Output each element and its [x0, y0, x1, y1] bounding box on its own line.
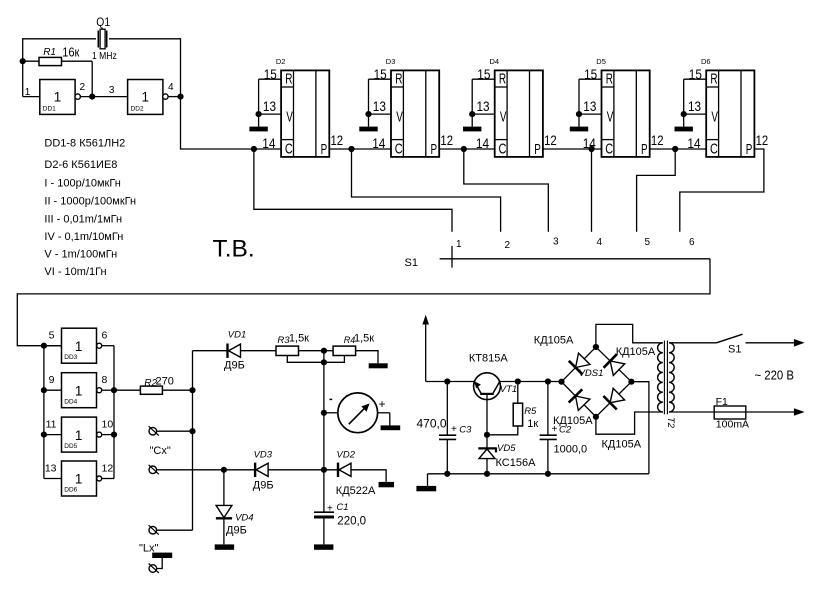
svg-text:8: 8: [102, 374, 108, 386]
node V (VT1 base / VD5): [484, 432, 490, 438]
ground (VD2): [379, 482, 395, 487]
wire +U rail (left): [426, 381, 474, 383]
label T2: [665, 417, 676, 429]
transistor VT1: [469, 353, 517, 435]
diode VD2: [336, 450, 376, 498]
node DC+ (bridge left): [558, 379, 564, 385]
svg-text:13: 13: [263, 98, 276, 114]
ground (D6 pins 15,13): [675, 127, 693, 132]
counter D4: [469, 57, 557, 158]
svg-text:VI - 10m/1Гн: VI - 10m/1Гн: [44, 266, 106, 278]
node Y (VD5 bottom): [484, 471, 490, 477]
node D (clock tap 1): [251, 146, 257, 152]
svg-text:12: 12: [102, 463, 114, 475]
svg-text:DD4: DD4: [64, 398, 77, 405]
svg-text:V: V: [711, 109, 718, 126]
wire primary bottom to fuse: [669, 411, 714, 413]
node A (R1 tap on DD1 input): [20, 58, 26, 64]
inverter DD2: [109, 80, 174, 115]
node X (C3 bottom): [444, 471, 450, 477]
resistor R3 (trimmer-connected): [276, 332, 324, 362]
svg-text:13: 13: [477, 98, 490, 114]
wire wiper to inverter bank: [17, 259, 710, 346]
terminal XS1 Cx: [149, 426, 193, 435]
wire bridge minus to 0V rail: [631, 382, 649, 474]
node L (DD4 out): [111, 387, 117, 393]
svg-text:Д9Б: Д9Б: [253, 480, 274, 492]
svg-text:14: 14: [687, 135, 700, 151]
svg-text:DD1-8 К561ЛН2: DD1-8 К561ЛН2: [44, 138, 125, 150]
crystal Q1: [92, 15, 117, 62]
ground (C1): [314, 544, 333, 549]
wire DD1 out to DD2 in: [80, 96, 127, 98]
svg-text:11: 11: [46, 419, 57, 431]
svg-text:R: R: [606, 71, 613, 88]
label KD105A top-right: [616, 346, 656, 358]
wire switch to mains line: [746, 339, 805, 347]
svg-text:R5: R5: [524, 406, 537, 417]
svg-text:Д9Б: Д9Б: [224, 359, 245, 371]
svg-text:P: P: [746, 141, 753, 158]
svg-text:4: 4: [168, 82, 174, 93]
switch S1 wiper: [405, 246, 711, 269]
node I (DD3 in): [41, 343, 47, 349]
bridge diode VDS1.3 (top-right): [604, 354, 625, 375]
bridge diode VDS1.1 (top-left): [569, 353, 590, 374]
meter PA1: [324, 393, 390, 433]
svg-text:1,5к: 1,5к: [354, 332, 374, 344]
wire VD1 to R3: [241, 350, 277, 352]
svg-text:3: 3: [109, 85, 115, 96]
switch S1 (range selector) contact labels: [456, 237, 695, 252]
node Z (C2 bottom): [545, 471, 551, 477]
svg-text:P: P: [321, 141, 328, 158]
svg-text:12: 12: [651, 132, 664, 148]
node Q (meter minus): [321, 410, 327, 416]
svg-text:DD2: DD2: [131, 105, 144, 112]
svg-text:Т.В.: Т.В.: [213, 236, 255, 263]
svg-text:1: 1: [54, 90, 62, 105]
wire bus to VD1: [193, 350, 228, 352]
svg-text:C: C: [285, 140, 293, 157]
label KD105A top-left: [534, 334, 574, 346]
svg-text:V: V: [500, 109, 507, 126]
svg-text:DD3: DD3: [64, 354, 77, 361]
svg-text:D2-6 К561ИЕ8: D2-6 К561ИЕ8: [44, 159, 117, 171]
ground (R4): [369, 363, 388, 368]
wire output bus (DD3-DD6): [113, 346, 115, 479]
resistor R5: [487, 382, 538, 435]
counter D2: [256, 57, 344, 158]
svg-text:6: 6: [102, 330, 108, 342]
svg-text:VT1: VT1: [500, 384, 517, 395]
svg-text:C: C: [499, 140, 507, 157]
node H (clock tap 5): [672, 146, 678, 152]
svg-text:14: 14: [372, 135, 385, 151]
svg-text:+: +: [327, 503, 333, 514]
svg-text:DD6: DD6: [64, 487, 77, 494]
counter D3: [365, 57, 453, 158]
node K (DD5 in): [41, 432, 47, 438]
label VDS1: [579, 368, 604, 379]
svg-text:1: 1: [456, 239, 462, 250]
svg-text:13: 13: [583, 98, 596, 114]
node S (detector junction): [321, 467, 327, 473]
svg-text:VD3: VD3: [254, 450, 273, 461]
resistor R2: [114, 375, 193, 394]
wire R1 to node B: [91, 61, 93, 96]
svg-text:T2: T2: [665, 417, 676, 429]
node E (clock tap 2): [348, 146, 354, 152]
svg-text:C1: C1: [336, 502, 348, 513]
svg-text:Д9Б: Д9Б: [226, 525, 247, 537]
svg-text:F1: F1: [716, 396, 728, 408]
svg-text:КД105А: КД105А: [553, 415, 593, 427]
svg-text:5: 5: [645, 237, 651, 248]
node R (VD4 branch): [221, 467, 227, 473]
capacitor C3: [417, 382, 473, 474]
svg-text:P: P: [641, 141, 648, 158]
node P1 (R3/R4 junction): [321, 348, 327, 354]
bridge diode VDS1.4 (bottom-right): [603, 388, 624, 409]
node DC- (bridge right): [628, 379, 634, 385]
node J (DD4 in): [41, 387, 47, 393]
wire tap to contact 3: [464, 149, 549, 232]
svg-text:КТ815А: КТ815А: [469, 353, 508, 365]
wire left measure bus: [192, 351, 194, 531]
diode VD1: [224, 330, 246, 372]
wire center bus (meter feed): [323, 351, 325, 513]
svg-text:C: C: [395, 140, 403, 157]
wire DD2 out to clock node: [168, 96, 180, 98]
svg-text:V: V: [396, 109, 403, 126]
svg-text:1,5к: 1,5к: [289, 332, 309, 344]
label ~220V: [755, 369, 795, 383]
svg-text:R: R: [499, 71, 506, 88]
terminal XS2 Cx return: [149, 465, 224, 474]
svg-text:1: 1: [75, 428, 83, 443]
transformer T2 primary winding: [669, 343, 674, 412]
svg-text:"Сх": "Сх": [150, 445, 171, 457]
wire bridge top to secondary: [596, 324, 663, 347]
wire VD3 to node S: [268, 469, 338, 471]
svg-text:P: P: [534, 141, 541, 158]
inverter DD4: [44, 373, 114, 408]
node T (C3 tap): [444, 378, 450, 384]
svg-text:VD1: VD1: [228, 330, 246, 341]
svg-text:D3: D3: [386, 57, 396, 66]
svg-text:КС156А: КС156А: [496, 457, 537, 469]
svg-text:14: 14: [262, 135, 275, 151]
label Lx: [139, 543, 159, 555]
svg-text:D4: D4: [490, 57, 500, 66]
inverter DD5: [44, 417, 114, 452]
svg-text:100mA: 100mA: [716, 419, 749, 431]
node F (clock tap 3): [461, 146, 467, 152]
svg-text:16к: 16к: [62, 44, 79, 59]
svg-text:12: 12: [440, 132, 453, 148]
node B (junction R1/DD1out/DD2in): [89, 94, 95, 100]
svg-text:V: V: [286, 109, 293, 126]
label T.B.: [213, 236, 255, 263]
switch S1 (mains): [717, 334, 743, 355]
node O (Cx terminal junction): [189, 428, 195, 434]
svg-text:DD5: DD5: [64, 443, 77, 450]
wire primary top to switch: [669, 342, 717, 344]
counter D5: [576, 57, 664, 158]
svg-text:2: 2: [80, 82, 86, 93]
svg-text:270: 270: [156, 375, 174, 387]
svg-text:4: 4: [597, 237, 603, 248]
wire 0V rail: [428, 474, 649, 486]
svg-text:C3: C3: [459, 425, 472, 436]
svg-text:13: 13: [45, 463, 57, 475]
svg-text:S1: S1: [728, 344, 741, 356]
svg-text:1000,0: 1000,0: [554, 444, 588, 456]
svg-text:6: 6: [689, 237, 695, 248]
svg-text:V: V: [607, 109, 614, 126]
svg-text:1к: 1к: [527, 418, 538, 430]
svg-text:КД105А: КД105А: [534, 334, 574, 346]
wire tap to contact 1: [254, 149, 452, 232]
ground (power supply common): [416, 486, 436, 491]
node M (DD5 out): [111, 432, 117, 438]
svg-text:VD5: VD5: [497, 443, 516, 454]
wire tap to contact 5: [637, 149, 676, 232]
wire tap to contact 4: [591, 149, 593, 232]
wire fuse to mains line: [746, 408, 805, 416]
svg-text:1: 1: [75, 472, 83, 487]
label parts list / ranges: [44, 138, 136, 279]
inverter DD6: [44, 461, 114, 496]
node W (C2 tap): [545, 378, 551, 384]
node AC2 (bridge bottom): [593, 414, 599, 420]
transformer T2 secondary winding: [658, 343, 663, 412]
svg-text:+: +: [451, 424, 457, 435]
svg-text:1 MHz: 1 MHz: [92, 50, 117, 62]
svg-text:13: 13: [688, 98, 701, 114]
svg-text:VDS1: VDS1: [579, 368, 604, 379]
node U (R5 tap): [515, 378, 521, 384]
svg-text:10: 10: [102, 419, 114, 431]
ground (meter plus): [381, 425, 401, 430]
svg-text:I - 100p/10мкГн: I - 100p/10мкГн: [44, 178, 120, 190]
wire to VD3: [224, 469, 255, 471]
svg-text:R: R: [710, 71, 717, 88]
svg-text:1: 1: [141, 90, 149, 105]
svg-text:Q1: Q1: [96, 15, 110, 29]
svg-text:9: 9: [49, 374, 55, 386]
svg-text:C: C: [710, 140, 718, 157]
svg-text:IV - 0,1m/10мГн: IV - 0,1m/10мГн: [44, 231, 123, 243]
svg-text:1: 1: [75, 383, 83, 398]
svg-text:1: 1: [75, 339, 83, 354]
capacitor C2: [540, 382, 588, 474]
ground (VD4): [215, 544, 234, 549]
svg-text:470,0: 470,0: [417, 416, 447, 430]
svg-text:3: 3: [553, 237, 559, 248]
node G (clock tap 4): [588, 146, 594, 152]
svg-text:R: R: [395, 71, 402, 88]
wire +U rail (right): [500, 381, 562, 383]
svg-text:V - 1m/100мГн: V - 1m/100мГн: [44, 249, 117, 261]
inverter DD3: [44, 328, 114, 363]
svg-text:VD2: VD2: [337, 450, 356, 461]
bridge diode VDS1.2 (bottom-left): [569, 389, 590, 410]
svg-text:R1: R1: [43, 47, 56, 58]
counter D6: [681, 57, 769, 158]
svg-text:КД522А: КД522А: [336, 485, 376, 497]
svg-text:R: R: [285, 71, 292, 88]
svg-text:D2: D2: [276, 57, 286, 66]
diode VD4: [216, 470, 254, 545]
ground (D4 pins 15,13): [463, 127, 481, 132]
terminal XS3 Lx: [149, 525, 193, 534]
node P2 (trimmer taps junction): [321, 359, 327, 365]
wire bridge frame: [562, 347, 632, 417]
svg-text:2: 2: [505, 240, 511, 251]
wire tap to contact 2: [352, 149, 501, 232]
fuse F1: [714, 396, 749, 431]
label Cx: [150, 445, 171, 457]
svg-text:D5: D5: [596, 57, 606, 66]
svg-text:+: +: [379, 397, 386, 411]
svg-text:КД105А: КД105А: [602, 439, 642, 451]
terminal XS4 Lx return: [149, 564, 159, 573]
inverter DD1: [23, 80, 86, 115]
node C (oscillator output): [177, 94, 183, 100]
wire bridge bottom to secondary: [596, 412, 663, 434]
wire oscillator feedback loop (top): [23, 39, 181, 97]
node N (R2 junction): [189, 387, 195, 393]
svg-text:13: 13: [373, 98, 386, 114]
ground (D3 pins 15,13): [359, 127, 377, 132]
wire VD2 to ground: [351, 470, 386, 482]
svg-text:II - 1000p/100мкГн: II - 1000p/100мкГн: [44, 196, 136, 208]
wire input bus (DD3-DD6): [43, 346, 45, 479]
svg-text:C: C: [605, 140, 613, 157]
svg-text:~ 220 В: ~ 220 В: [755, 369, 795, 383]
label KD105A bottom-left: [553, 415, 593, 427]
resistor R4 (trimmer-connected): [324, 332, 374, 362]
svg-text:12: 12: [756, 132, 769, 148]
capacitor C1: [314, 502, 366, 544]
svg-text:P: P: [431, 141, 438, 158]
wire D6 output to contact 6: [680, 149, 764, 232]
svg-text:12: 12: [331, 132, 344, 148]
wire R3 to R4: [299, 350, 334, 352]
svg-text:12: 12: [544, 132, 557, 148]
ground (D5 pins 15,13): [570, 127, 588, 132]
svg-text:VD4: VD4: [235, 513, 253, 524]
ground (Lx terminal): [152, 553, 172, 569]
svg-text:III - 0,01m/1мГн: III - 0,01m/1мГн: [44, 214, 122, 226]
svg-text:14: 14: [476, 135, 489, 151]
transformer T2 core: [664, 341, 667, 415]
svg-text:D6: D6: [701, 57, 711, 66]
node AC1 (bridge top): [593, 344, 599, 350]
label KD105A bottom-right: [602, 439, 642, 451]
wire R4 to ground: [356, 351, 378, 364]
svg-text:S1: S1: [405, 257, 418, 269]
resistor R1: [23, 44, 93, 65]
ground (D2 pins 15,13): [249, 127, 267, 132]
zener diode VD5: [478, 435, 536, 474]
svg-text:DD1: DD1: [43, 105, 56, 112]
svg-text:220,0: 220,0: [337, 516, 366, 528]
svg-text:КД105А: КД105А: [616, 346, 656, 358]
supply arrow (+U to logic): [422, 315, 429, 382]
diode VD3: [253, 450, 274, 492]
wire clock bus: [181, 97, 707, 149]
svg-text:5: 5: [49, 330, 55, 342]
